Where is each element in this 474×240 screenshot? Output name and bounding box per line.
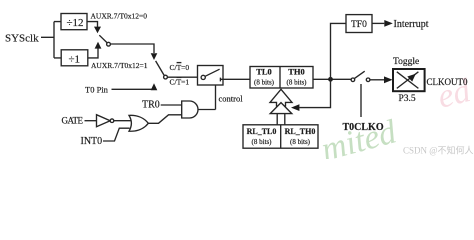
- wire control box to TL0: [223, 78, 250, 80]
- wire T0 Pin to contact: [112, 88, 155, 91]
- svg-text:CLKOUT0: CLKOUT0: [427, 77, 468, 87]
- wire /1 output to contact: [88, 48, 98, 58]
- svg-text:(8 bits): (8 bits): [290, 138, 311, 146]
- svg-text:T0 Pin: T0 Pin: [85, 85, 109, 95]
- switch S2 C/T pole: [164, 75, 168, 79]
- svg-text:(8 bits): (8 bits): [254, 79, 275, 87]
- wire SYSclk to branch: [41, 22, 61, 58]
- register box RL_TL0/RL_TH0: [243, 125, 318, 148]
- arrow interrupt: [384, 20, 393, 27]
- flag box TF0: [346, 15, 372, 33]
- svg-text:(8 bits): (8 bits): [286, 79, 307, 87]
- svg-text:TF0: TF0: [351, 20, 367, 30]
- contact arrow down into C/T switch: [151, 53, 158, 60]
- wire T0CLKO control: [360, 84, 362, 117]
- wire AND output to control: [198, 109, 216, 111]
- svg-text:Interrupt: Interrupt: [394, 19, 429, 30]
- wire INT0 to OR: [103, 128, 130, 141]
- svg-text:T0CLKO: T0CLKO: [343, 122, 384, 133]
- svg-text:TR0: TR0: [142, 100, 160, 111]
- switch S1 AUXR pole: [107, 42, 111, 46]
- svg-text:(8 bits): (8 bits): [251, 138, 272, 146]
- svg-text:Toggle: Toggle: [393, 57, 419, 67]
- svg-text:SYSclk: SYSclk: [5, 33, 39, 45]
- watermark pink: [434, 72, 474, 116]
- and-gate U3: [182, 101, 198, 118]
- reload shaft: [277, 114, 285, 125]
- wire inverter to OR: [114, 120, 131, 122]
- svg-text:P3.5: P3.5: [399, 94, 416, 104]
- svg-text:RL_TL0: RL_TL0: [247, 127, 277, 136]
- wire TR0 to AND: [161, 104, 182, 106]
- divider box /12: [61, 14, 87, 30]
- svg-text:RL_TH0: RL_TH0: [285, 127, 316, 136]
- svg-text:TL0: TL0: [256, 67, 272, 77]
- control switch box: [198, 66, 224, 86]
- switch S3 output: [351, 78, 355, 82]
- wire /12 output to contact: [87, 22, 98, 27]
- wire reload feedback: [299, 79, 330, 107]
- svg-text:CSDN @不知何人: CSDN @不知何人: [403, 145, 474, 156]
- svg-text:GATE: GATE: [62, 115, 84, 125]
- wire control vertical from AND: [215, 85, 217, 110]
- wire S3 to toggle arrow: [370, 79, 384, 81]
- svg-text:INT0: INT0: [81, 136, 103, 147]
- wire TF0 to interrupt arrow: [372, 22, 384, 24]
- svg-text:AUXR.7/T0x12=1: AUXR.7/T0x12=1: [91, 61, 148, 70]
- watermark green: [317, 113, 401, 169]
- arrow into toggle: [384, 76, 393, 83]
- wire TH0 to switch S3: [313, 78, 351, 80]
- reload hollow arrow lower: [270, 103, 292, 114]
- inverter U1: [97, 115, 111, 127]
- contact arrow down from /12: [94, 27, 101, 34]
- reload hollow arrow upper: [270, 89, 292, 106]
- wire GATE to inverter: [85, 120, 97, 122]
- register box TL0/TH0: [250, 67, 313, 89]
- contact arrow up from /1: [95, 42, 102, 49]
- arrow reload trigger: [291, 104, 299, 111]
- svg-text:AUXR.7/T0x12=0: AUXR.7/T0x12=0: [91, 12, 148, 21]
- or-gate U2: [129, 115, 148, 131]
- toggle box: [393, 69, 425, 91]
- svg-text:C/T=0: C/T=0: [170, 63, 190, 72]
- wire C/T pole to control box: [167, 76, 197, 78]
- wire S1 pole to C/T contact: [110, 44, 154, 53]
- svg-text:÷1: ÷1: [69, 53, 81, 65]
- wire OR to AND: [148, 115, 181, 124]
- wire junction up to TF0: [331, 23, 347, 79]
- divider box /1: [61, 50, 88, 66]
- node junction dot: [328, 77, 333, 82]
- svg-text:÷12: ÷12: [67, 17, 84, 29]
- svg-text:C/T=1: C/T=1: [170, 78, 190, 87]
- contact arrow up from T0 Pin: [151, 83, 158, 90]
- svg-text:control: control: [219, 94, 244, 104]
- svg-text:TH0: TH0: [288, 67, 305, 77]
- svg-text:mited: mited: [317, 113, 401, 159]
